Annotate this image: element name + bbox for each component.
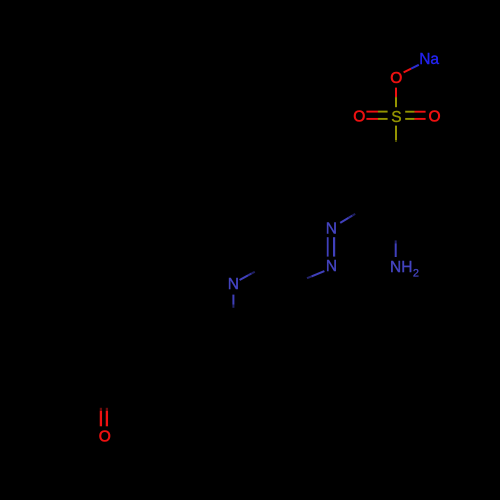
double bond S=O left, lower line [366,118,387,120]
bond O-Na (Na half) [411,65,419,69]
svg-text:S: S [391,109,401,126]
double bond C=O ketone, right line [106,408,108,427]
svg-text:O: O [353,109,365,126]
double bond N=N, right line [333,237,335,256]
bond O-Na (red half) [404,69,412,73]
bond C3-N azo (N half) [340,214,355,223]
bond C4-NH2 (N half) [395,240,397,257]
bond O-S (S half) [395,97,397,107]
double bond C=O ketone, left line [100,408,102,427]
bond N-C up-right (N half) [240,272,255,280]
atom NH2 (amine) [390,259,419,280]
svg-text:N: N [326,258,337,275]
double bond S=O right, upper line [405,111,425,113]
svg-text:O: O [390,70,402,87]
svg-text:NH: NH [390,259,412,276]
svg-text:O: O [429,109,441,126]
svg-text:2: 2 [413,268,419,280]
svg-text:O: O [99,428,111,445]
bond O-S (O half) [395,88,397,98]
svg-text:N: N [326,221,337,238]
svg-text:Na: Na [419,51,439,68]
double bond N=N, left line [327,237,329,256]
svg-text:N: N [228,276,239,293]
bond N-C ring2 (N half) [307,271,324,278]
bond N-C down (N half) [232,295,234,308]
bond S-C1 (S half) [395,126,397,142]
double bond S=O right, lower line [405,118,425,120]
double bond S=O left, upper line [366,111,387,113]
